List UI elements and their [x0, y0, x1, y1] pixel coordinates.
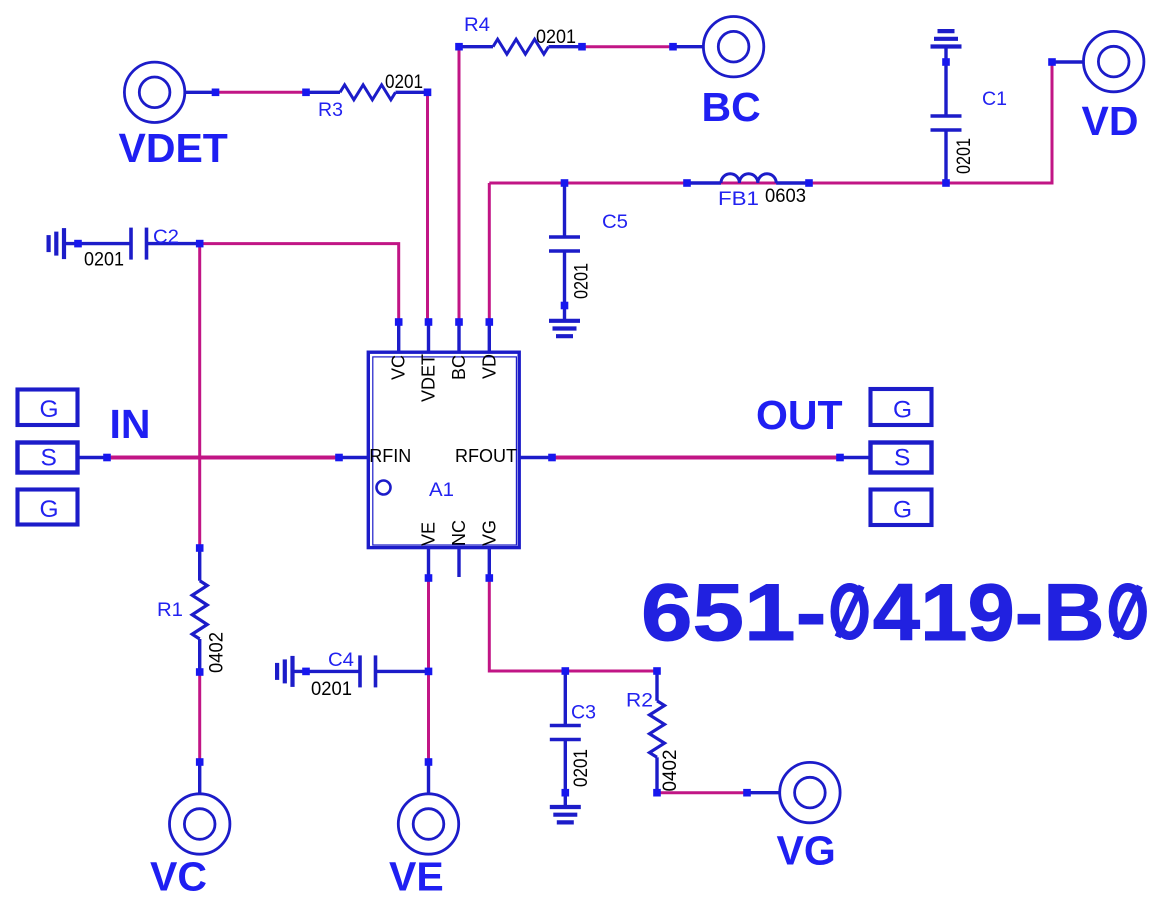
pin BC stub [455, 318, 463, 351]
svg-text:0201: 0201 [954, 138, 975, 174]
port VD [1048, 31, 1144, 91]
capacitor C4 [293, 655, 433, 687]
svg-text:0201: 0201 [385, 72, 423, 93]
ground (C5) [549, 321, 580, 336]
wire VG pin to C3/R2 [489, 578, 657, 671]
port BC [669, 17, 764, 77]
svg-text:C3: C3 [571, 703, 596, 724]
port VG [743, 762, 840, 822]
svg-text:VC: VC [150, 854, 207, 900]
pin 1 indicator circle [377, 481, 391, 495]
wire VD net horizontal [489, 62, 1052, 183]
wire R3 to VDET pin [426, 92, 429, 322]
svg-text:651-: 651- [641, 568, 826, 658]
svg-text:0201: 0201 [84, 250, 124, 271]
wire R4 to BC pin [458, 47, 461, 322]
svg-text:C2: C2 [153, 227, 179, 248]
ferrite bead FB1 [683, 174, 813, 187]
wire VDET port to R3 [216, 91, 307, 94]
port VE [398, 758, 458, 854]
svg-text:BC: BC [702, 84, 761, 130]
svg-text:G: G [40, 396, 59, 423]
svg-text:RFOUT: RFOUT [455, 446, 517, 466]
wire C2 to VC pin [200, 244, 399, 322]
board number slashed zero 1 [835, 586, 865, 637]
svg-text:419-B: 419-B [873, 568, 1105, 658]
svg-text:VC: VC [389, 355, 409, 380]
svg-text:0201: 0201 [571, 749, 592, 787]
svg-text:R2: R2 [626, 691, 653, 712]
wire VE pin to VE port [427, 578, 430, 762]
resistor R1 [192, 544, 207, 676]
IN G box top [18, 390, 78, 426]
svg-text:RFIN: RFIN [369, 446, 411, 466]
port VDET [124, 62, 219, 122]
OUT G box bottom [871, 490, 932, 526]
svg-text:A1: A1 [429, 480, 454, 501]
capacitor C5 [549, 179, 580, 319]
ground (C2, left) [49, 228, 64, 259]
svg-text:VD: VD [479, 354, 499, 379]
svg-text:FB1: FB1 [718, 189, 759, 210]
pin VC stub [395, 318, 403, 351]
pin VD stub [486, 318, 494, 351]
svg-text:S: S [41, 444, 57, 471]
OUT S box [836, 443, 931, 473]
svg-text:S: S [894, 444, 910, 471]
svg-text:R4: R4 [464, 15, 490, 36]
wire R2 to VG port [657, 791, 747, 794]
svg-text:C4: C4 [328, 650, 354, 671]
resistor R4 [455, 39, 586, 54]
svg-text:VE: VE [389, 854, 444, 900]
ground (C1, top) [931, 31, 962, 46]
capacitor C1 [931, 47, 962, 187]
wire IN S to RFIN [107, 456, 339, 460]
wire C2 down to R1 [198, 244, 201, 548]
wire VD pin up [488, 183, 491, 322]
svg-text:R3: R3 [318, 100, 343, 121]
svg-text:0201: 0201 [572, 263, 593, 299]
pin VDET stub [425, 318, 433, 351]
svg-text:R1: R1 [157, 600, 183, 621]
svg-text:C1: C1 [982, 89, 1007, 110]
wire R4 to BC port [582, 45, 673, 48]
svg-text:IN: IN [110, 401, 151, 447]
svg-text:C5: C5 [602, 212, 628, 233]
svg-text:G: G [40, 496, 59, 523]
resistor R3 [302, 85, 431, 100]
svg-text:0201: 0201 [536, 27, 576, 48]
svg-text:VDET: VDET [419, 354, 439, 402]
board number slashed zero 2 [1113, 586, 1143, 637]
svg-text:VG: VG [479, 520, 499, 546]
svg-text:0201: 0201 [311, 679, 352, 700]
pin RFIN stub [335, 454, 368, 462]
port VC [170, 758, 230, 854]
svg-text:VE: VE [419, 522, 439, 546]
svg-text:VD: VD [1082, 98, 1139, 144]
svg-text:G: G [893, 396, 912, 423]
IN G box bottom [18, 490, 78, 525]
svg-text:VDET: VDET [119, 125, 228, 171]
ground (C3) [550, 807, 581, 822]
svg-text:0603: 0603 [765, 186, 806, 207]
wire RFOUT to OUT S [552, 456, 840, 460]
svg-text:OUT: OUT [756, 392, 843, 438]
IN S box [18, 443, 111, 473]
ground (C4, left) [277, 656, 292, 687]
IC A1 [368, 352, 519, 547]
svg-text:G: G [893, 496, 912, 523]
OUT G box top [871, 389, 932, 425]
svg-text:0402: 0402 [207, 632, 228, 673]
capacitor C3 [550, 667, 581, 806]
wire R1 to VC port [198, 672, 201, 762]
capacitor C2 [64, 228, 204, 260]
svg-text:0402: 0402 [660, 750, 681, 792]
pin VG stub [486, 548, 494, 582]
resistor R2 [650, 667, 665, 796]
pin VE stub [425, 548, 433, 582]
svg-text:NC: NC [449, 520, 469, 546]
pin RFOUT stub [520, 454, 556, 462]
svg-text:BC: BC [449, 355, 469, 380]
pin NC stub [457, 548, 460, 577]
svg-text:VG: VG [777, 828, 836, 874]
